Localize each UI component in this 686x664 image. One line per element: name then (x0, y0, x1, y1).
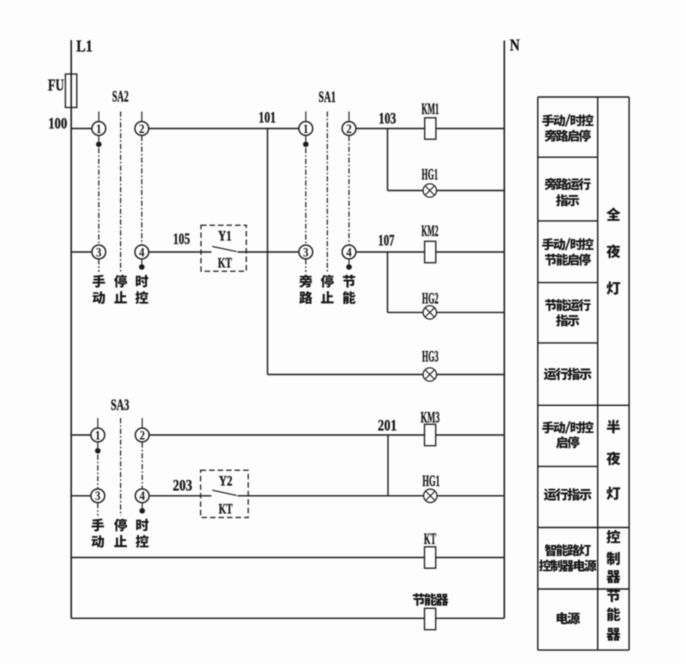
svg-text:4: 4 (139, 488, 145, 503)
svg-text:1: 1 (96, 121, 102, 136)
svg-text:100: 100 (48, 116, 67, 133)
svg-text:HG1: HG1 (422, 167, 438, 184)
svg-text:101: 101 (259, 110, 276, 127)
svg-text:KM3: KM3 (421, 409, 440, 426)
svg-text:SA2: SA2 (112, 89, 129, 106)
svg-text:KT: KT (218, 255, 232, 271)
svg-text:KM1: KM1 (421, 101, 439, 118)
svg-text:3: 3 (95, 488, 101, 503)
svg-text:HG3: HG3 (422, 349, 439, 366)
svg-text:103: 103 (379, 110, 397, 127)
svg-text:SA3: SA3 (111, 397, 130, 414)
svg-text:N: N (510, 36, 521, 55)
svg-text:201: 201 (378, 418, 397, 435)
svg-text:KT: KT (424, 531, 436, 548)
svg-text:4: 4 (139, 244, 145, 259)
svg-text:KM2: KM2 (421, 223, 438, 240)
svg-text:203: 203 (173, 478, 193, 495)
svg-text:KT: KT (219, 502, 233, 518)
svg-text:HG2: HG2 (422, 290, 439, 307)
svg-text:4: 4 (346, 244, 352, 259)
svg-text:2: 2 (139, 427, 145, 442)
svg-text:L1: L1 (76, 37, 93, 56)
svg-text:1: 1 (95, 427, 101, 442)
svg-text:SA1: SA1 (319, 89, 336, 106)
svg-text:107: 107 (378, 233, 394, 250)
svg-text:HG1: HG1 (422, 473, 440, 490)
svg-text:3: 3 (303, 244, 309, 259)
svg-text:Y1: Y1 (218, 229, 232, 245)
svg-text:FU: FU (48, 76, 64, 95)
svg-text:2: 2 (139, 121, 145, 136)
svg-text:1: 1 (303, 121, 309, 136)
svg-text:Y2: Y2 (219, 474, 233, 490)
svg-text:2: 2 (346, 121, 352, 136)
svg-text:3: 3 (96, 244, 102, 259)
svg-text:105: 105 (173, 231, 190, 248)
